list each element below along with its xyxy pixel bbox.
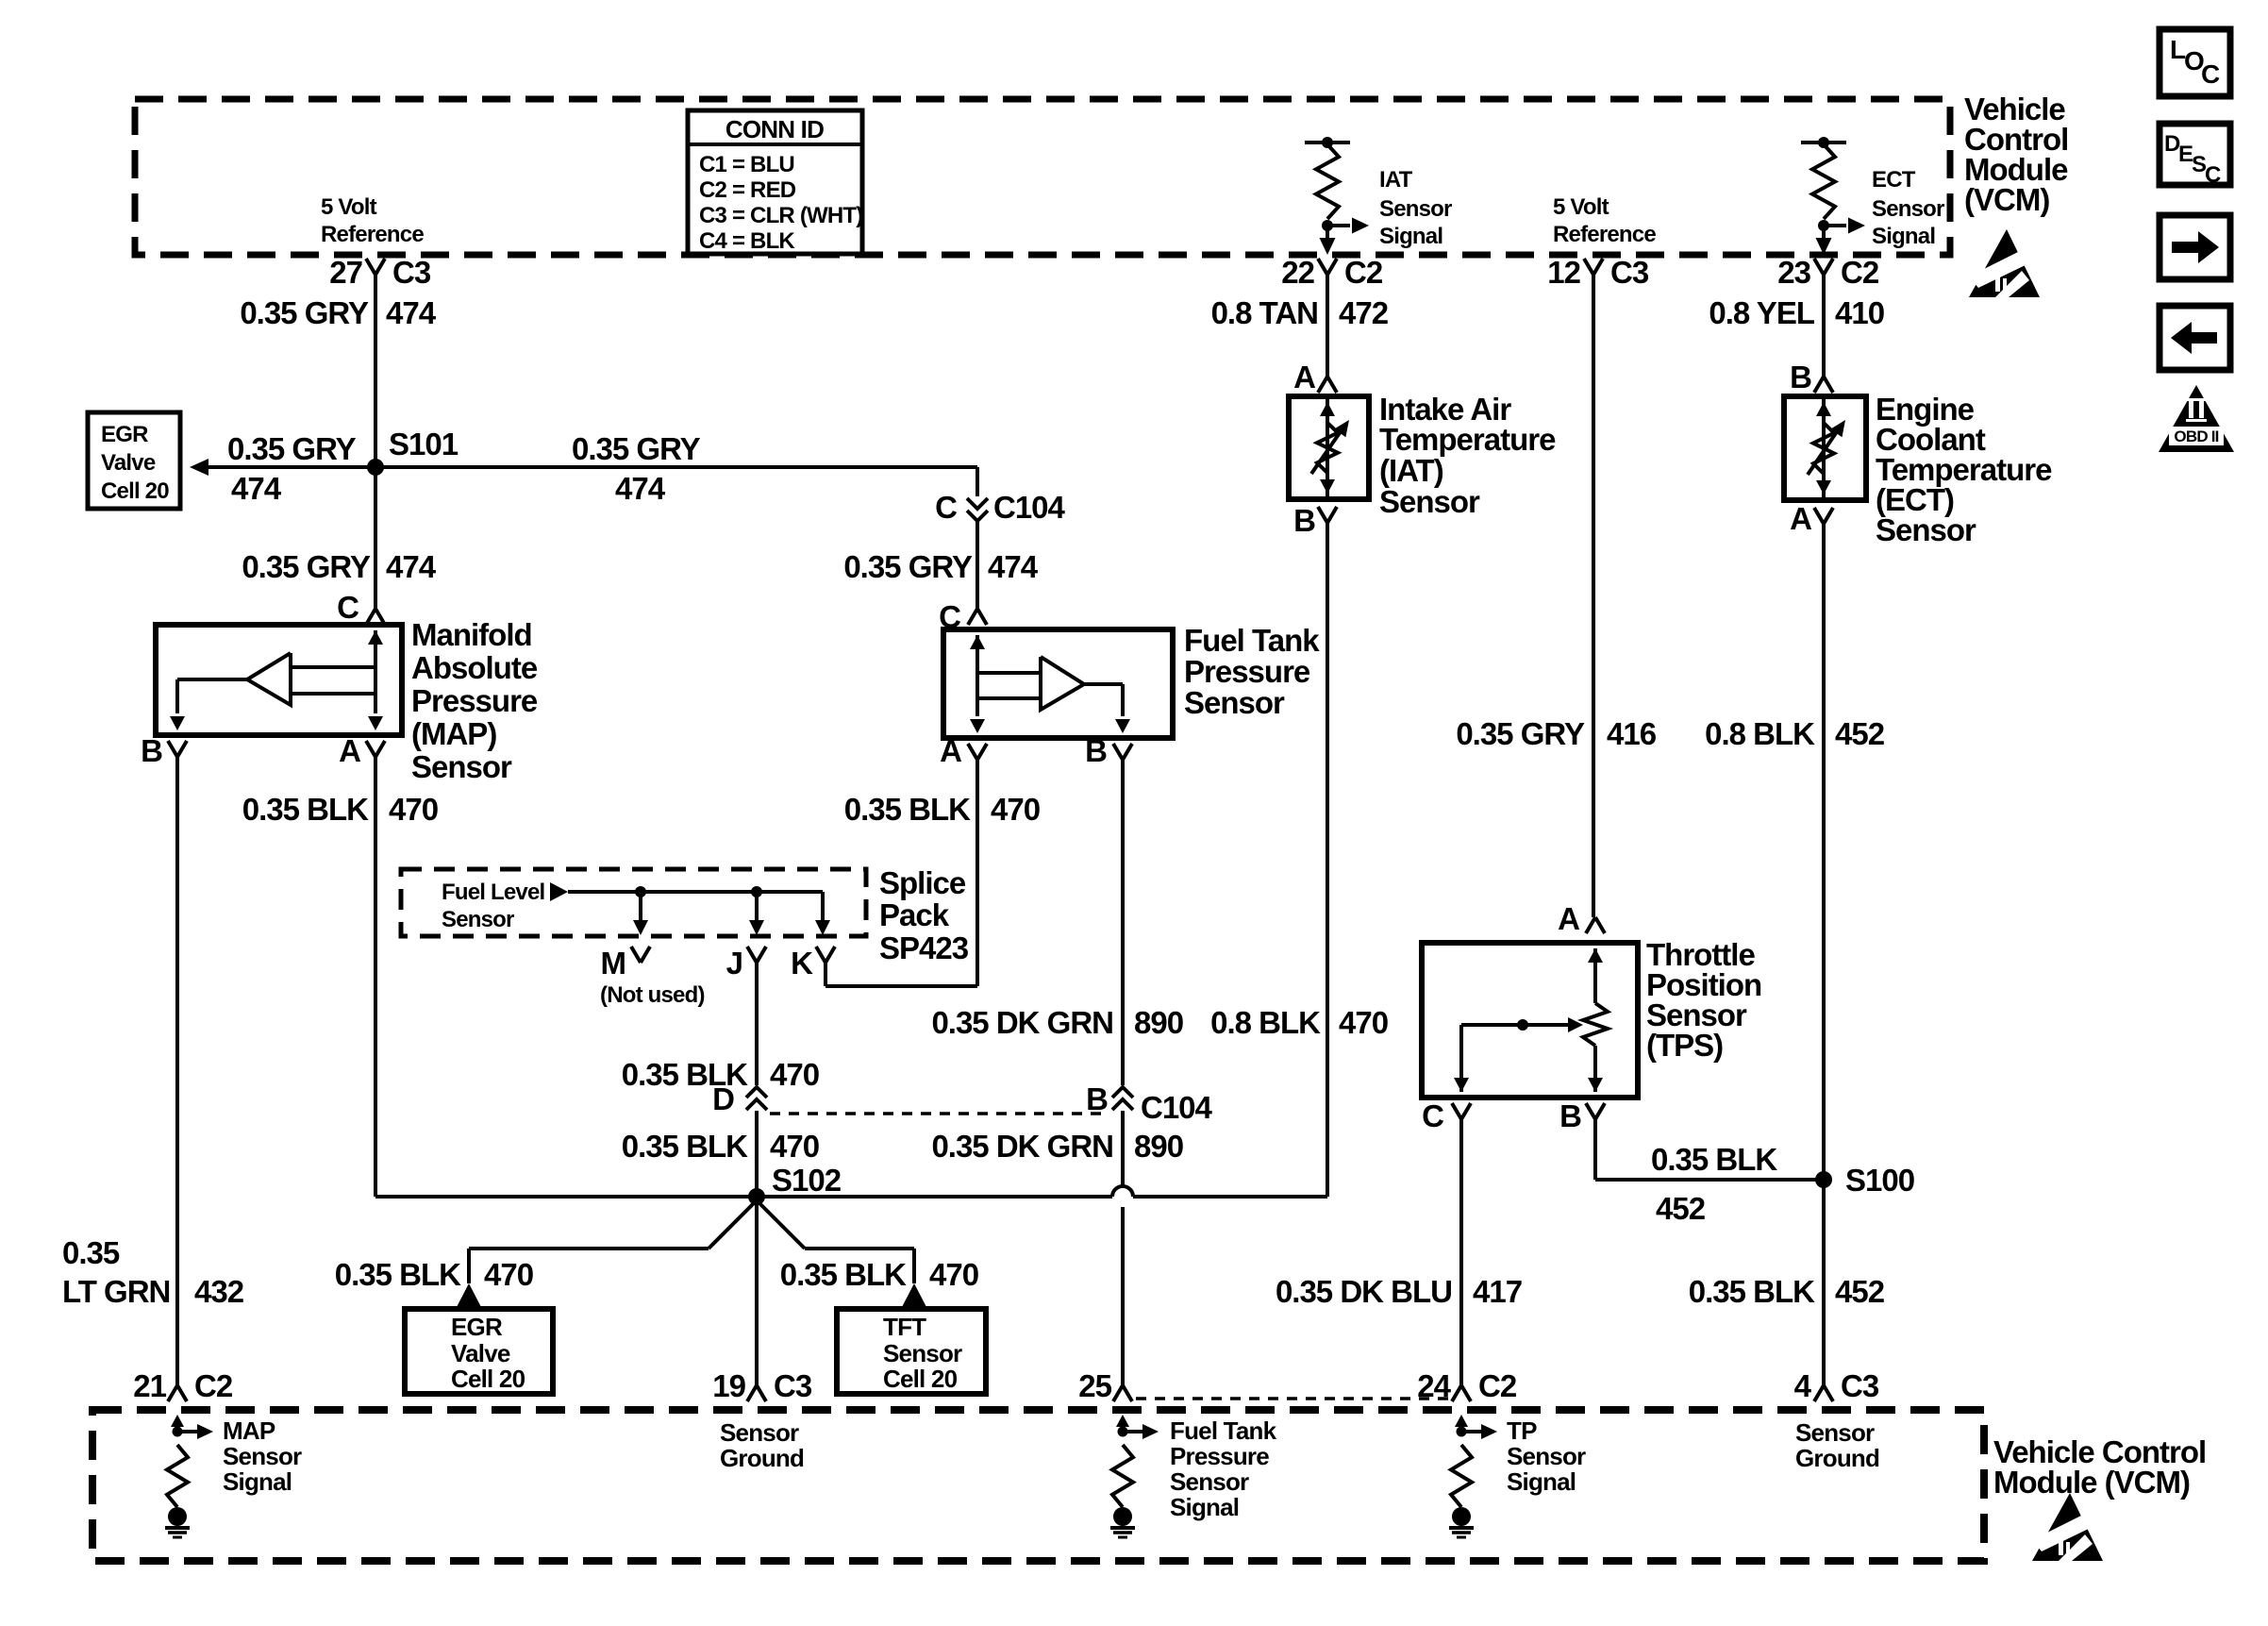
svg-text:452: 452 <box>1656 1191 1706 1226</box>
svg-text:0.35: 0.35 <box>62 1235 120 1270</box>
label 0.35 BLK 470 (EGR branch) <box>335 1257 533 1292</box>
svg-text:Fuel Tank: Fuel Tank <box>1184 623 1320 658</box>
svg-text:470: 470 <box>770 1129 819 1164</box>
svg-text:(IAT): (IAT) <box>1379 453 1443 488</box>
svg-text:474: 474 <box>386 549 437 584</box>
pin 21 C2 on VCM <box>133 1368 233 1403</box>
MAP sensor box <box>156 625 402 735</box>
svg-text:12: 12 <box>1547 255 1580 290</box>
EGR Valve Cell 20 box (left) <box>88 412 180 509</box>
svg-text:J: J <box>726 946 742 981</box>
svg-text:470: 470 <box>1339 1005 1388 1040</box>
throttle position sensor box <box>1422 943 1638 1098</box>
svg-text:C2: C2 <box>1478 1368 1517 1403</box>
icon OBD II triangle <box>2159 385 2234 452</box>
pin B of ECT sensor <box>1790 360 1833 394</box>
resistor IAT pull-up in VCM <box>1305 137 1369 255</box>
label Sensor Ground (pin 4) <box>1795 1418 1879 1472</box>
svg-text:0.8 TAN: 0.8 TAN <box>1211 295 1318 330</box>
CONN ID row C3=CLR (WHT) <box>699 203 862 228</box>
IAT sensor box <box>1289 396 1369 499</box>
junction at splice M <box>635 886 646 897</box>
svg-text:LT GRN: LT GRN <box>62 1274 170 1309</box>
label 0.35 GRY 416 <box>1456 716 1656 751</box>
svg-text:Ground: Ground <box>720 1444 804 1472</box>
fuel tank pressure sensor internal symbol <box>970 635 1130 733</box>
svg-text:TP: TP <box>1507 1416 1537 1445</box>
wire 470 from FTP sensor pin A to splice K <box>825 760 977 986</box>
wire 410 from pin 23 to ECT sensor <box>1822 275 1826 377</box>
svg-text:Pressure: Pressure <box>1170 1442 1269 1470</box>
CONN ID row C4=BLK <box>699 228 795 254</box>
svg-text:C2: C2 <box>1344 255 1383 290</box>
svg-text:25: 25 <box>1078 1368 1111 1403</box>
EGR valve cell 20 terminal triangle <box>457 1283 481 1307</box>
svg-text:(Not used): (Not used) <box>600 982 705 1008</box>
svg-text:Signal: Signal <box>1507 1467 1576 1496</box>
svg-text:472: 472 <box>1339 295 1389 330</box>
svg-text:Sensor: Sensor <box>1379 196 1452 222</box>
svg-text:C: C <box>337 590 359 625</box>
wire 452 from ECT pin A to S100 <box>1822 524 1826 1180</box>
wire 890 from C104 pin B to pin 25 <box>1121 1111 1125 1385</box>
svg-text:Absolute: Absolute <box>411 650 538 685</box>
svg-text:0.8 BLK: 0.8 BLK <box>1210 1005 1321 1040</box>
wire sensor ground from S102 to IAT pin B wire (hop over 890) <box>757 1186 1327 1197</box>
wire 452 from S100 to pin 4 <box>1822 1180 1826 1385</box>
svg-text:Sensor: Sensor <box>1170 1467 1249 1496</box>
pin 24 C2 on VCM <box>1417 1368 1517 1403</box>
svg-text:C2 = RED: C2 = RED <box>699 177 796 203</box>
TFT Sensor Cell 20 box <box>837 1309 986 1394</box>
pin A of TPS <box>1558 901 1605 936</box>
svg-text:470: 470 <box>484 1257 533 1292</box>
svg-text:0.35 GRY: 0.35 GRY <box>242 549 371 584</box>
label Engine Coolant Temperature (ECT) Sensor <box>1876 392 2052 547</box>
svg-text:470: 470 <box>770 1057 819 1092</box>
CONN ID table header text <box>725 115 824 143</box>
wire S102 branch to TFT sensor cell 20 <box>757 1200 914 1283</box>
svg-text:Sensor: Sensor <box>1507 1442 1586 1470</box>
svg-text:Temperature: Temperature <box>1379 422 1556 457</box>
svg-text:C2: C2 <box>1841 255 1879 290</box>
svg-text:Splice: Splice <box>879 865 966 900</box>
svg-text:Signal: Signal <box>1872 224 1935 249</box>
fuel tank pressure sensor box <box>943 629 1173 738</box>
label Fuel Tank Pressure Sensor <box>1184 623 1320 720</box>
wire 417 from TPS pin C to pin 24 <box>1459 1119 1463 1385</box>
vehicle control module (VCM) top dashed box <box>135 99 1950 255</box>
pin 27 C3 on VCM <box>329 255 431 290</box>
ECT sensor box <box>1784 396 1866 500</box>
svg-text:27: 27 <box>329 255 362 290</box>
svg-text:5 Volt: 5 Volt <box>1553 194 1609 220</box>
svg-text:474: 474 <box>386 295 437 330</box>
CONN ID table box <box>688 110 862 254</box>
svg-text:Sensor: Sensor <box>883 1339 962 1367</box>
svg-text:0.35 BLK: 0.35 BLK <box>844 792 971 827</box>
svg-text:(TPS): (TPS) <box>1646 1028 1723 1063</box>
icon forward arrow box <box>2160 215 2230 279</box>
label ECT Sensor Signal <box>1872 167 1944 249</box>
label 452 (below S100 wire) <box>1656 1191 1706 1226</box>
svg-text:470: 470 <box>389 792 438 827</box>
label MAP Sensor Signal <box>223 1416 302 1496</box>
svg-text:C: C <box>1422 1098 1443 1133</box>
label 5 Volt Reference (right) <box>1553 194 1656 247</box>
label IAT Sensor Signal <box>1379 167 1452 249</box>
svg-text:S102: S102 <box>772 1163 842 1198</box>
TFT sensor cell 20 terminal triangle <box>902 1283 926 1307</box>
pin A of fuel tank pressure sensor <box>940 733 987 768</box>
svg-text:Sensor: Sensor <box>1184 685 1285 720</box>
svg-text:0.35 DK GRN: 0.35 DK GRN <box>931 1129 1113 1164</box>
svg-text:0.35 GRY: 0.35 GRY <box>572 431 701 466</box>
svg-text:Fuel Tank: Fuel Tank <box>1170 1416 1277 1445</box>
label Fuel Level Sensor <box>442 880 544 932</box>
svg-text:0.35 BLK: 0.35 BLK <box>242 792 369 827</box>
splice pack SP423 dashed box <box>401 869 866 936</box>
pin A of IAT sensor <box>1293 360 1337 394</box>
ESD warning symbol bottom <box>2032 1493 2103 1561</box>
svg-text:B: B <box>141 733 162 768</box>
svg-text:Cell 20: Cell 20 <box>451 1365 525 1393</box>
svg-text:B: B <box>1559 1098 1581 1133</box>
label 0.35 BLK 470 (below C104 D) <box>622 1129 819 1164</box>
svg-text:Valve: Valve <box>101 450 156 476</box>
pin 22 C2 on VCM <box>1281 255 1383 290</box>
pin B of TPS <box>1559 1098 1605 1133</box>
svg-text:432: 432 <box>194 1274 244 1309</box>
svg-text:890: 890 <box>1134 1005 1183 1040</box>
svg-text:B: B <box>1085 733 1107 768</box>
label 0.8 TAN 472 <box>1211 295 1389 330</box>
svg-text:C3: C3 <box>774 1368 812 1403</box>
svg-text:452: 452 <box>1835 716 1885 751</box>
svg-text:C: C <box>2205 162 2221 188</box>
node S101 <box>367 427 459 476</box>
svg-text:0.35 BLK: 0.35 BLK <box>1651 1142 1777 1177</box>
label 0.35 DK BLU 417 <box>1276 1274 1522 1309</box>
label 5 Volt Reference (left) <box>321 194 424 247</box>
pin M of splice pack <box>631 947 650 963</box>
CONN ID row C1=BLU <box>699 152 794 177</box>
pin J of splice pack <box>726 946 766 981</box>
label 0.35 GRY 474 (EGR branch) <box>227 431 357 506</box>
label M (Not used) <box>600 946 705 1008</box>
svg-text:Sensor: Sensor <box>1872 196 1944 222</box>
svg-text:Manifold: Manifold <box>411 617 532 652</box>
icon DESC box <box>2160 124 2230 188</box>
label 0.8 YEL 410 <box>1709 295 1884 330</box>
thermistor in IAT sensor <box>1311 399 1349 496</box>
wire 452 from TPS pin B to S100 <box>1595 1119 1824 1180</box>
pin B of IAT sensor <box>1293 503 1337 538</box>
svg-text:0.35 GRY: 0.35 GRY <box>843 549 973 584</box>
svg-text:23: 23 <box>1777 255 1810 290</box>
icon back arrow box <box>2160 306 2230 370</box>
svg-text:B: B <box>1086 1081 1108 1116</box>
label 0.8 BLK 470 (IAT ground) <box>1210 1005 1388 1040</box>
svg-text:Valve: Valve <box>451 1339 510 1367</box>
wire 474 from pin 27 to S101 <box>374 275 377 467</box>
pin C of MAP sensor <box>337 590 385 625</box>
svg-text:Ground: Ground <box>1795 1444 1879 1472</box>
svg-text:C: C <box>2201 59 2220 89</box>
wire M drop (not used) <box>633 892 648 935</box>
label 0.35 BLK 470 (above C104 D) <box>622 1057 819 1092</box>
svg-text:B: B <box>1293 503 1315 538</box>
wire sensor ground from MAP pin A to S102 <box>375 757 757 1197</box>
label Intake Air Temperature (IAT) Sensor <box>1379 392 1556 519</box>
svg-text:Sensor: Sensor <box>442 907 514 932</box>
svg-text:C3: C3 <box>1841 1368 1879 1403</box>
svg-text:Signal: Signal <box>1170 1493 1239 1521</box>
node S102 <box>748 1163 842 1205</box>
CONN ID row C2=RED <box>699 177 796 203</box>
svg-text:0.35 GRY: 0.35 GRY <box>1456 716 1585 751</box>
svg-text:A: A <box>940 733 961 768</box>
svg-text:Sensor: Sensor <box>1876 512 1976 547</box>
wire 416 from pin 12 to TPS pin A <box>1592 275 1595 917</box>
svg-text:A: A <box>1558 901 1579 936</box>
fuel level sensor feed arrow <box>550 882 568 901</box>
label 0.35 GRY 474 (to C104) <box>572 431 701 506</box>
svg-text:OBD II: OBD II <box>2174 427 2218 445</box>
svg-text:B: B <box>1790 360 1811 394</box>
label 0.35 BLK 452 (to pin 4) <box>1689 1274 1885 1309</box>
vehicle control module (VCM) bottom dashed box <box>92 1410 1984 1561</box>
wire J drop <box>749 892 764 935</box>
svg-text:C104: C104 <box>993 490 1066 525</box>
MAP sensor signal termination <box>165 1415 213 1537</box>
MAP sensor internal symbol <box>170 630 383 730</box>
thermistor in ECT sensor <box>1808 399 1845 497</box>
svg-text:21: 21 <box>133 1368 166 1403</box>
svg-text:22: 22 <box>1281 255 1314 290</box>
pin 4 C3 on VCM <box>1794 1368 1879 1403</box>
svg-text:C: C <box>935 490 957 525</box>
connector C104 pin B <box>1086 1081 1212 1125</box>
svg-text:MAP: MAP <box>223 1416 275 1445</box>
svg-text:0.35 GRY: 0.35 GRY <box>240 295 369 330</box>
svg-text:Sensor: Sensor <box>1379 484 1480 519</box>
fuel tank pressure sensor signal termination <box>1110 1415 1159 1537</box>
svg-text:Sensor: Sensor <box>720 1418 799 1447</box>
node S100 <box>1815 1163 1914 1198</box>
svg-text:470: 470 <box>929 1257 978 1292</box>
pin C of fuel tank pressure sensor <box>939 599 987 634</box>
svg-text:ECT: ECT <box>1872 167 1916 193</box>
svg-text:19: 19 <box>712 1368 745 1403</box>
label 0.35 BLK 470 (MAP pin A) <box>242 792 438 827</box>
label 0.35 DK GRN 890 (above C104) <box>931 1005 1183 1040</box>
svg-text:A: A <box>1293 360 1315 394</box>
ESD warning symbol top <box>1969 229 2040 297</box>
svg-text:TFT: TFT <box>883 1313 926 1341</box>
wire 432 from MAP pin B to pin 21 <box>175 757 179 1385</box>
svg-text:Sensor: Sensor <box>411 749 512 784</box>
svg-text:C3: C3 <box>1610 255 1649 290</box>
svg-text:C1 = BLU: C1 = BLU <box>699 152 794 177</box>
wire 474 from S101 down to MAP sensor <box>374 467 377 609</box>
wire 470 from splice J to C104 pin D <box>755 963 759 1085</box>
pin B of MAP sensor <box>141 733 187 768</box>
svg-text:0.35 BLK: 0.35 BLK <box>780 1257 907 1292</box>
connector C104 pin D <box>712 1081 767 1116</box>
wire S102 branch to EGR valve cell 20 <box>469 1200 757 1283</box>
svg-text:C104: C104 <box>1141 1090 1213 1125</box>
connector dashed link pin 25 to pin 24 <box>1136 1397 1448 1400</box>
svg-text:M: M <box>601 946 626 981</box>
svg-text:C2: C2 <box>194 1368 233 1403</box>
svg-text:474: 474 <box>231 471 282 506</box>
svg-text:Fuel Level: Fuel Level <box>442 880 544 905</box>
svg-text:452: 452 <box>1835 1274 1885 1309</box>
connector C104 pin C <box>935 490 1065 525</box>
label Vehicle Control Module (VCM) top right <box>1964 92 2068 217</box>
pin A of ECT sensor <box>1790 501 1833 536</box>
svg-text:IAT: IAT <box>1379 167 1413 193</box>
svg-text:S100: S100 <box>1845 1163 1914 1198</box>
wire 474 from S101 to C104 pin C <box>375 467 977 496</box>
label 0.35 GRY 474 (below C104) <box>843 549 1038 584</box>
svg-text:C3 = CLR (WHT): C3 = CLR (WHT) <box>699 203 862 228</box>
wire fuel level sensor bus <box>568 890 823 894</box>
pin B of fuel tank pressure sensor <box>1085 733 1132 768</box>
svg-text:0.35 BLK: 0.35 BLK <box>335 1257 461 1292</box>
EGR Valve Cell 20 box (bottom) <box>405 1309 553 1394</box>
svg-text:0.35 DK GRN: 0.35 DK GRN <box>931 1005 1113 1040</box>
label TP Sensor Signal <box>1507 1416 1586 1496</box>
label 0.8 BLK 452 <box>1705 716 1885 751</box>
svg-text:Pressure: Pressure <box>411 683 538 718</box>
svg-text:5 Volt: 5 Volt <box>321 194 377 220</box>
wire 474 from S101 to EGR Valve <box>190 459 375 476</box>
svg-text:0.8 BLK: 0.8 BLK <box>1705 716 1815 751</box>
junction at splice J <box>751 886 762 897</box>
svg-text:S101: S101 <box>389 427 459 461</box>
wire 890 from FTP sensor pin B to C104 pin B <box>1121 760 1125 1085</box>
svg-text:0.35 BLK: 0.35 BLK <box>1689 1274 1815 1309</box>
pin K of splice pack <box>791 946 835 981</box>
pin 25 on VCM <box>1078 1368 1132 1403</box>
pin A of MAP sensor <box>339 733 385 768</box>
label 0.35 DK GRN 890 (below C104) <box>931 1129 1183 1164</box>
svg-text:(MAP): (MAP) <box>411 716 496 751</box>
svg-text:Signal: Signal <box>1379 224 1443 249</box>
label Splice Pack SP423 <box>879 865 969 965</box>
wire 474 from C104 to fuel tank pressure sensor <box>976 522 979 609</box>
wire 470 from C104 pin D to S102 <box>755 1111 759 1197</box>
pin 12 C3 on VCM <box>1547 255 1649 290</box>
svg-text:D: D <box>712 1081 734 1116</box>
svg-text:EGR: EGR <box>101 422 148 447</box>
svg-text:Module (VCM): Module (VCM) <box>1993 1465 2190 1500</box>
label Vehicle Control Module (VCM) bottom right <box>1993 1434 2206 1500</box>
svg-text:417: 417 <box>1473 1274 1522 1309</box>
svg-text:SP423: SP423 <box>879 930 969 965</box>
label Sensor Ground (pin 19) <box>720 1418 804 1472</box>
svg-text:0.35 GRY: 0.35 GRY <box>227 431 357 466</box>
wire 472 from pin 22 to IAT sensor <box>1326 275 1329 377</box>
svg-text:0.35 DK BLU: 0.35 DK BLU <box>1276 1274 1452 1309</box>
svg-text:0.8 YEL: 0.8 YEL <box>1709 295 1814 330</box>
svg-text:410: 410 <box>1835 295 1884 330</box>
pin C of TPS <box>1422 1098 1471 1133</box>
label 0.35 GRY 474 (MAP branch) <box>242 549 436 584</box>
label Throttle Position Sensor (TPS) <box>1646 937 1761 1063</box>
svg-text:A: A <box>339 733 360 768</box>
svg-text:Pack: Pack <box>879 897 950 932</box>
svg-text:24: 24 <box>1417 1368 1451 1403</box>
pin 23 C2 on VCM <box>1777 255 1879 290</box>
svg-text:K: K <box>791 946 813 981</box>
label Manifold Absolute Pressure (MAP) Sensor <box>411 617 538 784</box>
wire 470 from IAT pin B to sensor ground run <box>1326 523 1329 1197</box>
svg-text:A: A <box>1790 501 1811 536</box>
resistor ECT pull-up in VCM <box>1801 137 1865 255</box>
svg-text:890: 890 <box>1134 1129 1183 1164</box>
svg-text:(VCM): (VCM) <box>1964 182 2049 217</box>
connector C104 dashed line D to B <box>770 1112 1108 1115</box>
svg-text:470: 470 <box>991 792 1040 827</box>
svg-text:474: 474 <box>988 549 1039 584</box>
svg-text:416: 416 <box>1607 716 1657 751</box>
svg-text:Cell 20: Cell 20 <box>883 1365 958 1393</box>
icon LOC box <box>2160 29 2230 96</box>
svg-text:Signal: Signal <box>223 1467 292 1496</box>
svg-text:Sensor: Sensor <box>1795 1418 1875 1447</box>
pin 19 C3 on VCM <box>712 1368 812 1403</box>
svg-text:474: 474 <box>615 471 666 506</box>
wire sensor ground from S102 to pin 19 <box>755 1197 759 1385</box>
svg-text:Cell 20: Cell 20 <box>101 478 169 504</box>
label 0.35 LT GRN 432 <box>62 1235 244 1309</box>
svg-text:4: 4 <box>1794 1368 1812 1403</box>
svg-text:Pressure: Pressure <box>1184 654 1310 689</box>
label Fuel Tank Pressure Sensor Signal <box>1170 1416 1277 1521</box>
svg-text:EGR: EGR <box>451 1313 503 1341</box>
label 0.35 BLK 452 (above S100 wire) <box>1651 1142 1777 1177</box>
label 0.35 GRY 474 (pin27) <box>240 295 436 330</box>
label 0.35 BLK 470 (FTP pin A) <box>844 792 1040 827</box>
svg-text:Sensor: Sensor <box>223 1442 302 1470</box>
TPS internal potentiometer <box>1454 948 1608 1092</box>
wire K drop <box>815 892 830 935</box>
label 0.35 BLK 470 (TFT branch) <box>780 1257 978 1292</box>
TP sensor signal termination <box>1449 1415 1497 1537</box>
svg-text:Reference: Reference <box>1553 222 1656 247</box>
svg-text:CONN ID: CONN ID <box>725 115 824 143</box>
svg-text:C3: C3 <box>392 255 431 290</box>
svg-text:C4 = BLK: C4 = BLK <box>699 228 795 254</box>
svg-text:0.35 BLK: 0.35 BLK <box>622 1129 748 1164</box>
svg-text:Reference: Reference <box>321 222 424 247</box>
